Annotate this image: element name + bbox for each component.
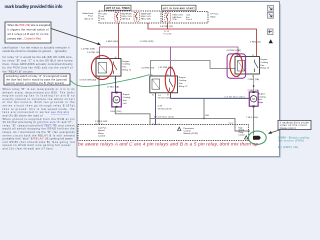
svg-text:C1: C1 <box>158 123 160 125</box>
svg-text:Control: Control <box>184 130 192 133</box>
svg-text:and (A) (B) share the load of: and (A) (B) share the load of <box>3 113 43 117</box>
svg-text:2 WHT (2A): 2 WHT (2A) <box>248 78 260 81</box>
svg-text:Cooling: Cooling <box>261 62 269 64</box>
svg-text:85: 85 <box>152 95 154 97</box>
svg-text:for relay "A" it would be the: for relay "A" it would be the AE (48) DK… <box>3 55 73 59</box>
svg-text:fan motors (FWD): fan motors (FWD) <box>278 139 304 143</box>
svg-text:the (low fan) both it would by: the (low fan) both it would by-pass the … <box>6 78 67 82</box>
svg-text:Fuse Blk: Fuse Blk <box>164 34 172 36</box>
svg-text:25 A: 25 A <box>173 18 178 21</box>
svg-text:please post it: please post it <box>280 127 296 130</box>
svg-text:DK BLU (473): DK BLU (473) <box>158 108 172 110</box>
svg-text:Fuse 4: Fuse 4 <box>186 19 193 21</box>
svg-text:30 A: 30 A <box>101 17 106 20</box>
svg-text:30: 30 <box>252 55 254 57</box>
svg-text:46: 46 <box>152 123 154 125</box>
svg-text:HOT AT ALL TIMES: HOT AT ALL TIMES <box>106 7 130 10</box>
svg-text:FAN 2 30A: FAN 2 30A <box>141 17 151 20</box>
svg-text:0.8 PNK (39): 0.8 PNK (39) <box>160 26 173 28</box>
svg-text:Cooling: Cooling <box>123 97 131 99</box>
svg-text:1.0 PNK (339): 1.0 PNK (339) <box>140 41 154 43</box>
svg-text:0.8 PNK (39A): 0.8 PNK (39A) <box>227 49 241 52</box>
svg-text:I.P Fuse: I.P Fuse <box>210 14 219 16</box>
svg-text:Fuse: Fuse <box>88 16 94 18</box>
svg-text:0.8 DK BLU (400): 0.8 DK BLU (400) <box>225 97 245 99</box>
svg-text:1.0 PNK (539): 1.0 PNK (539) <box>81 48 95 50</box>
svg-text:for relay "B" and "C" it is th: for relay "B" and "C" it is the DK BLU w… <box>3 59 73 63</box>
svg-text:85: 85 <box>237 76 239 78</box>
svg-text:and 12v (fast thread) ate it?: and 12v (fast thread) ate it? fans <box>3 147 54 151</box>
svg-text:FAN 30 A: FAN 30 A <box>122 17 131 20</box>
svg-text:Control: Control <box>98 135 106 138</box>
svg-text:My (FWD) ride: My (FWD) ride <box>278 145 299 149</box>
svg-text:Block #2: Block #2 <box>85 18 94 20</box>
svg-text:86: 86 <box>236 55 238 57</box>
svg-text:1.33 PNK (339): 1.33 PNK (339) <box>158 67 173 69</box>
svg-text:all 3 relays (A B and C) on th: all 3 relays (A B and C) on the <box>8 32 50 36</box>
svg-text:the "RELAY B" circuits: the "RELAY B" circuits <box>3 69 34 73</box>
svg-text:Right: Right <box>258 101 263 104</box>
svg-text:33: 33 <box>95 123 97 125</box>
svg-text:Block: Block <box>210 16 216 18</box>
svg-text:Engine: Engine <box>123 94 131 96</box>
svg-text:video on this circuit: video on this circuit <box>280 124 307 127</box>
svg-text:Engine: Engine <box>179 77 187 79</box>
svg-text:0.8 DK GRN (48): 0.8 DK GRN (48) <box>80 80 97 82</box>
svg-text:87: 87 <box>167 95 169 97</box>
svg-text:LT BLU (4A): LT BLU (4A) <box>107 86 119 89</box>
svg-text:Engine: Engine <box>261 59 269 61</box>
svg-text:33 C1: 33 C1 <box>229 123 234 125</box>
svg-text:Underhood: Underhood <box>82 12 94 15</box>
svg-text:Low Fan: Low Fan <box>98 127 107 129</box>
svg-text:Powertrain: Powertrain <box>184 127 195 130</box>
svg-text:Cooling: Cooling <box>258 96 266 98</box>
svg-text:by the PCM (low fan A/B) and v: by the PCM (low fan A/B) and via the on/… <box>3 66 73 70</box>
svg-text:1.0 PNK (39): 1.0 PNK (39) <box>87 52 100 54</box>
svg-text:86: 86 <box>97 57 99 59</box>
svg-text:Relay: Relay <box>98 133 104 135</box>
svg-text:When the PNK (39) wire is ener: When the PNK (39) wire is energized <box>8 23 51 27</box>
svg-text:(good) power providing via B: (good) power providing via B (high speed… <box>6 81 64 85</box>
svg-text:Control: Control <box>239 134 246 137</box>
svg-text:be aware relays A and C are 4: be aware relays A and C are 4 pin relays… <box>78 141 258 147</box>
svg-text:30: 30 <box>115 57 117 59</box>
svg-text:Speed: Speed <box>98 130 105 132</box>
svg-text:if anybody did a u-tube: if anybody did a u-tube <box>280 122 310 125</box>
svg-text:them, those GROUNDS actually c: them, those GROUNDS actually controlled … <box>3 62 74 66</box>
svg-text:it triggers the internal switc: it triggers the internal switch of <box>8 28 49 32</box>
svg-text:needs the circuit to complete: needs the circuit to complete its ground… <box>3 49 67 53</box>
svg-text:Cooling: Cooling <box>123 64 131 66</box>
svg-text:Engine: Engine <box>123 61 131 63</box>
svg-text:30: 30 <box>167 74 169 76</box>
svg-text:DK BLU (46): DK BLU (46) <box>158 98 171 100</box>
svg-text:Engine: Engine <box>258 93 266 95</box>
svg-text:HOT IN RUN AND START: HOT IN RUN AND START <box>163 7 196 10</box>
svg-text:Relay #1: Relay #1 <box>123 70 132 72</box>
svg-text:Cooling: Cooling <box>179 80 187 82</box>
svg-text:C2: C2 <box>101 123 103 125</box>
svg-text:0.8 PNK (39): 0.8 PNK (39) <box>142 68 155 70</box>
svg-text:Module (PCM): Module (PCM) <box>184 133 198 135</box>
svg-text:2 RED (42): 2 RED (42) <box>250 42 261 44</box>
svg-text:Left: Left <box>123 102 127 105</box>
svg-text:primary side... Circled in Red: primary side... Circled in Red <box>8 37 42 41</box>
svg-text:Relay #3: Relay #3 <box>261 68 270 70</box>
svg-text:1 BLK (150): 1 BLK (150) <box>246 117 258 119</box>
svg-text:Relay #2: Relay #2 <box>179 86 188 88</box>
svg-text:4 RED (442): 4 RED (442) <box>106 41 118 43</box>
svg-text:mark bradley provided this inf: mark bradley provided this info <box>5 4 63 9</box>
svg-text:something switch of relay "A": something switch of relay "A" (if energi… <box>6 74 67 78</box>
